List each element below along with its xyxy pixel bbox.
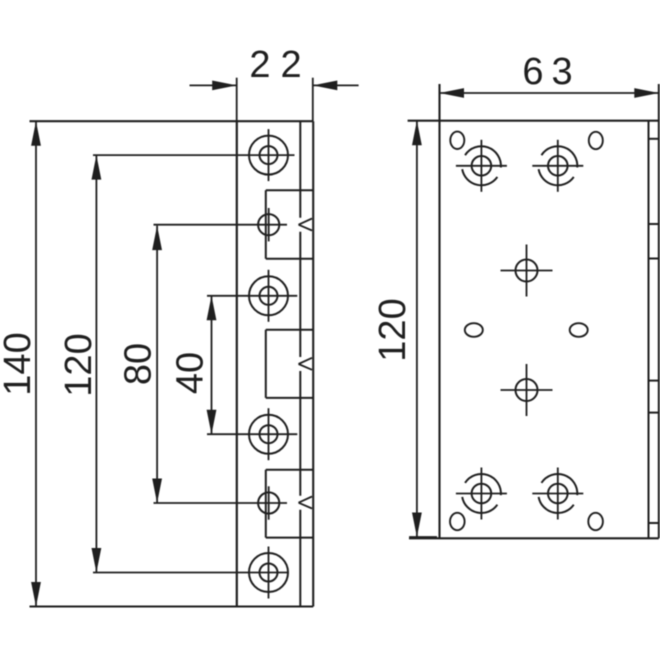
svg-text:80: 80 [118,343,160,385]
svg-text:63: 63 [522,51,580,93]
svg-text:140: 140 [0,332,39,395]
svg-text:40: 40 [170,352,212,394]
svg-text:22: 22 [249,44,311,86]
svg-text:120: 120 [372,298,414,361]
svg-text:120: 120 [58,333,100,396]
